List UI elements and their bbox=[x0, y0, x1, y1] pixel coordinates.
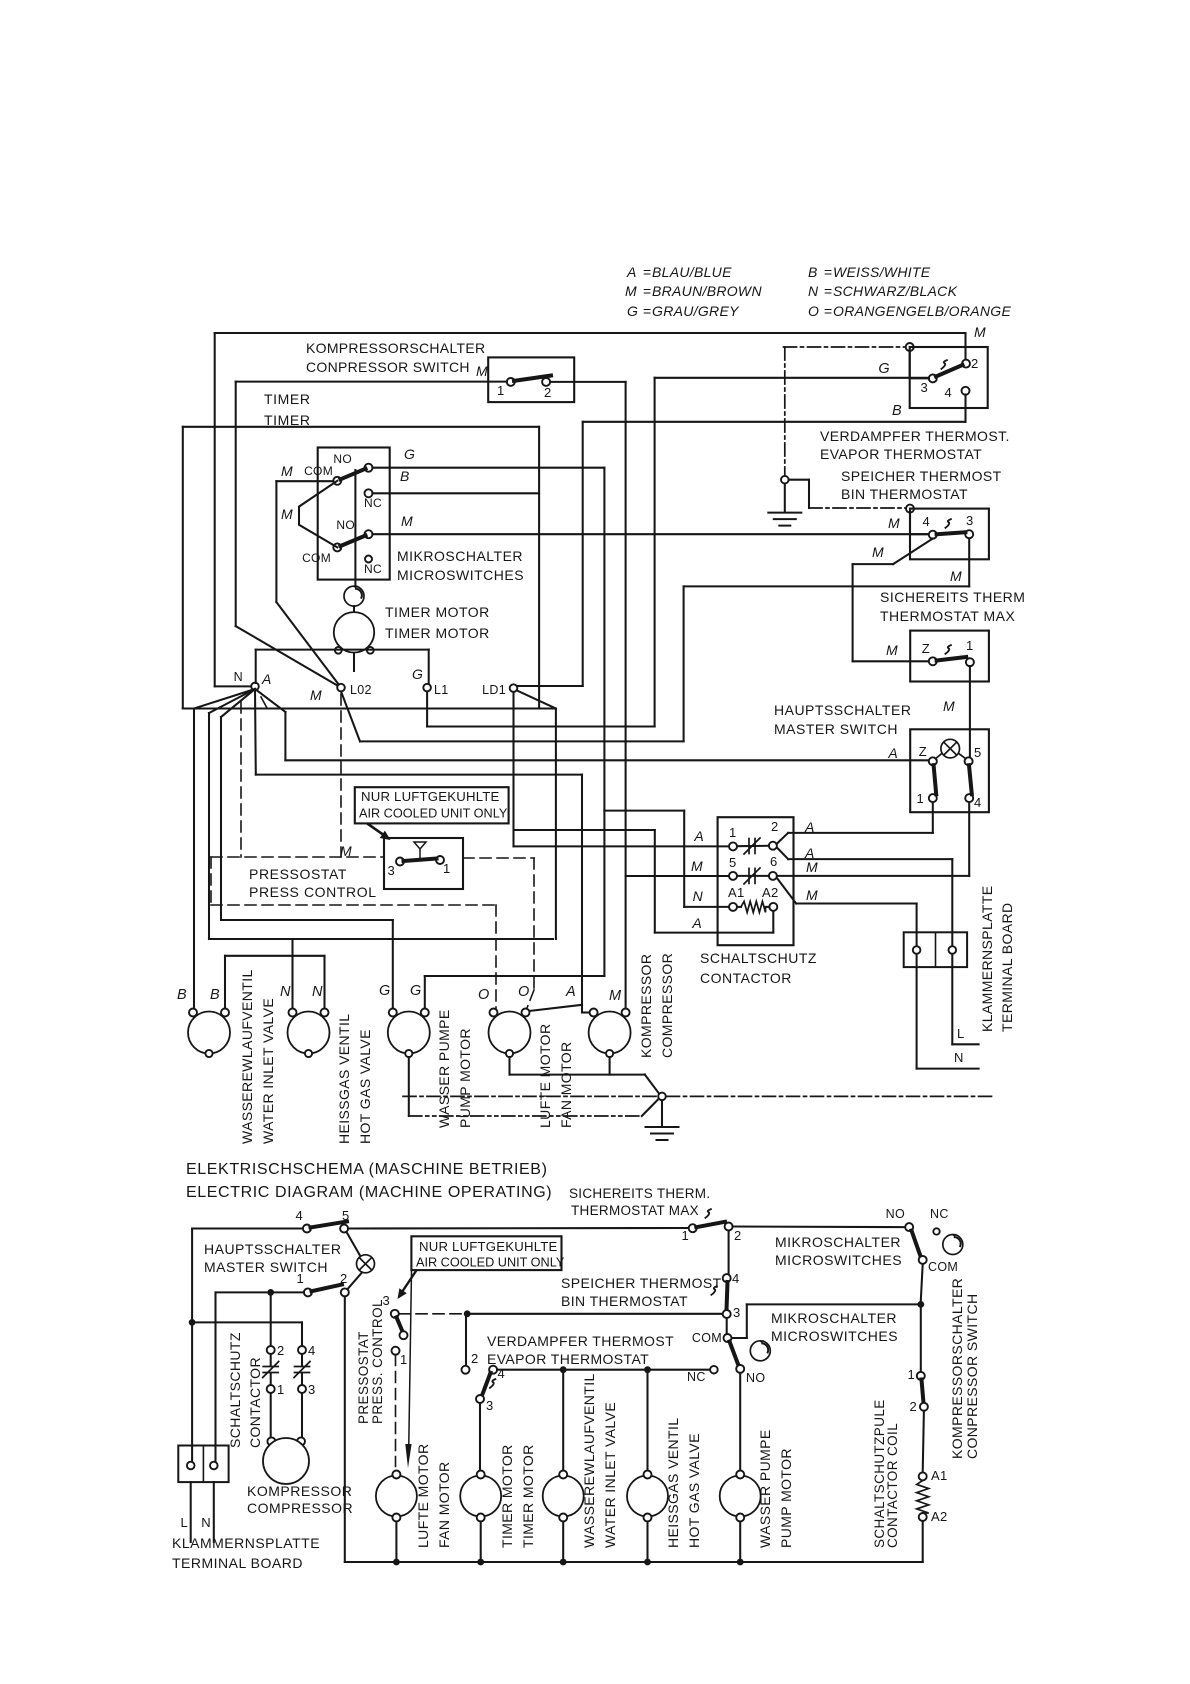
svg-text:HEISSGAS VENTIL: HEISSGAS VENTIL bbox=[336, 1014, 352, 1144]
svg-text:1: 1 bbox=[916, 791, 924, 806]
svg-text:=: = bbox=[824, 264, 832, 280]
svg-text:M: M bbox=[943, 698, 955, 714]
svg-text:NUR LUFTGEKUHLTE: NUR LUFTGEKUHLTE bbox=[419, 1239, 558, 1254]
svg-text:M: M bbox=[281, 506, 293, 522]
svg-text:NUR LUFTGEKUHLTE: NUR LUFTGEKUHLTE bbox=[361, 789, 500, 804]
svg-text:G: G bbox=[878, 361, 890, 377]
svg-text:N: N bbox=[312, 984, 323, 1000]
svg-text:4: 4 bbox=[944, 385, 952, 400]
svg-text:NO: NO bbox=[333, 452, 352, 466]
svg-text:BIN THERMOSTAT: BIN THERMOSTAT bbox=[561, 1293, 688, 1309]
svg-text:N: N bbox=[808, 283, 819, 299]
svg-text:A: A bbox=[887, 745, 898, 761]
svg-text:TERMINAL BOARD: TERMINAL BOARD bbox=[172, 1555, 303, 1571]
svg-text:ORANGENGELB/ORANGE: ORANGENGELB/ORANGE bbox=[833, 303, 1011, 319]
svg-text:M: M bbox=[401, 513, 413, 529]
svg-text:HEISSGAS VENTIL: HEISSGAS VENTIL bbox=[665, 1418, 681, 1548]
svg-text:L: L bbox=[180, 1515, 188, 1530]
svg-text:PRESSOSTAT: PRESSOSTAT bbox=[249, 866, 347, 882]
svg-text:M: M bbox=[872, 544, 884, 560]
svg-text:4: 4 bbox=[498, 1366, 506, 1381]
svg-text:L: L bbox=[957, 1026, 965, 1041]
svg-text:=: = bbox=[824, 283, 832, 299]
svg-text:TIMER MOTOR: TIMER MOTOR bbox=[385, 604, 490, 620]
svg-text:6: 6 bbox=[770, 854, 778, 869]
svg-text:LUFTE MOTOR: LUFTE MOTOR bbox=[415, 1444, 431, 1548]
svg-text:N: N bbox=[693, 888, 704, 904]
svg-text:3: 3 bbox=[308, 1382, 316, 1397]
svg-text:WASSER PUMPE: WASSER PUMPE bbox=[436, 1009, 452, 1128]
svg-text:5: 5 bbox=[342, 1208, 350, 1223]
svg-text:M: M bbox=[806, 887, 818, 903]
svg-text:PRESS CONTROL: PRESS CONTROL bbox=[249, 884, 377, 900]
svg-text:SICHEREITS THERM.: SICHEREITS THERM. bbox=[569, 1186, 710, 1201]
svg-text:MICROSWITCHES: MICROSWITCHES bbox=[771, 1328, 898, 1344]
svg-text:A: A bbox=[261, 671, 272, 687]
svg-text:SPEICHER THERMOST: SPEICHER THERMOST bbox=[841, 468, 1002, 484]
svg-text:HOT GAS VALVE: HOT GAS VALVE bbox=[686, 1433, 702, 1548]
svg-text:BIN THERMOSTAT: BIN THERMOSTAT bbox=[841, 486, 968, 502]
svg-text:NC: NC bbox=[364, 496, 382, 510]
svg-text:1: 1 bbox=[729, 825, 737, 840]
svg-text:1: 1 bbox=[400, 1352, 408, 1367]
svg-text:M: M bbox=[974, 324, 986, 340]
svg-text:ELEKTRISCHSCHEMA (MASCHINE BET: ELEKTRISCHSCHEMA (MASCHINE BETRIEB) bbox=[186, 1161, 548, 1178]
svg-text:4: 4 bbox=[974, 795, 982, 810]
svg-text:A: A bbox=[693, 828, 704, 844]
svg-text:G: G bbox=[412, 666, 423, 682]
svg-text:SICHEREITS THERM: SICHEREITS THERM bbox=[880, 589, 1025, 605]
svg-text:G: G bbox=[379, 983, 391, 999]
svg-text:A2: A2 bbox=[762, 885, 779, 900]
svg-text:2: 2 bbox=[734, 1228, 742, 1243]
svg-text:TIMER MOTOR: TIMER MOTOR bbox=[385, 625, 490, 641]
svg-text:CONTACTOR: CONTACTOR bbox=[247, 1357, 263, 1448]
svg-text:KLAMMERNSPLATTE: KLAMMERNSPLATTE bbox=[172, 1535, 320, 1551]
svg-text:WATER INLET VALVE: WATER INLET VALVE bbox=[260, 998, 276, 1144]
svg-text:M: M bbox=[476, 363, 488, 379]
svg-text:KOMPRESSORSCHALTER: KOMPRESSORSCHALTER bbox=[949, 1278, 965, 1459]
svg-text:EVAPOR THERMOSTAT: EVAPOR THERMOSTAT bbox=[487, 1351, 649, 1367]
svg-text:M: M bbox=[691, 858, 703, 874]
svg-text:COMPRESSOR: COMPRESSOR bbox=[659, 953, 675, 1058]
svg-text:N: N bbox=[234, 670, 243, 684]
svg-text:AIR COOLED UNIT ONLY: AIR COOLED UNIT ONLY bbox=[416, 1256, 565, 1270]
svg-text:AIR COOLED UNIT ONLY: AIR COOLED UNIT ONLY bbox=[359, 807, 508, 821]
svg-text:M: M bbox=[310, 687, 322, 703]
svg-text:MASTER SWITCH: MASTER SWITCH bbox=[774, 721, 898, 737]
svg-text:A: A bbox=[691, 915, 702, 931]
svg-text:CONPRESSOR SWITCH: CONPRESSOR SWITCH bbox=[306, 359, 470, 375]
svg-text:ELECTRIC DIAGRAM (MACHINE OPER: ELECTRIC DIAGRAM (MACHINE OPERATING) bbox=[186, 1184, 552, 1201]
svg-text:FAN MOTOR: FAN MOTOR bbox=[558, 1041, 574, 1128]
svg-text:1: 1 bbox=[443, 861, 451, 876]
svg-text:O: O bbox=[478, 987, 490, 1003]
svg-text:SCHWARZ/BLACK: SCHWARZ/BLACK bbox=[833, 283, 958, 299]
svg-text:TIMER: TIMER bbox=[264, 391, 311, 407]
svg-text:COM: COM bbox=[302, 551, 331, 565]
svg-text:=: = bbox=[643, 264, 651, 280]
svg-text:B: B bbox=[892, 403, 902, 419]
svg-text:A1: A1 bbox=[931, 1468, 948, 1483]
svg-text:COM: COM bbox=[304, 464, 333, 478]
svg-text:VERDAMPFER THERMOST.: VERDAMPFER THERMOST. bbox=[820, 428, 1010, 444]
svg-text:SCHALTSCHUTZ: SCHALTSCHUTZ bbox=[700, 950, 817, 966]
svg-text:HAUPTSSCHALTER: HAUPTSSCHALTER bbox=[204, 1241, 341, 1257]
svg-text:M: M bbox=[609, 988, 622, 1004]
svg-text:3: 3 bbox=[486, 1398, 494, 1413]
svg-text:PUMP MOTOR: PUMP MOTOR bbox=[778, 1448, 794, 1548]
svg-text:HOT GAS VALVE: HOT GAS VALVE bbox=[357, 1029, 373, 1144]
svg-text:3: 3 bbox=[733, 1305, 741, 1320]
svg-text:NC: NC bbox=[930, 1207, 949, 1221]
svg-text:4: 4 bbox=[308, 1343, 316, 1358]
svg-text:L1: L1 bbox=[434, 683, 449, 697]
svg-text:2: 2 bbox=[340, 1271, 348, 1286]
svg-text:NO: NO bbox=[886, 1207, 905, 1221]
svg-text:KLAMMERNSPLATTE: KLAMMERNSPLATTE bbox=[979, 885, 995, 1032]
svg-text:=: = bbox=[643, 303, 651, 319]
svg-text:=: = bbox=[643, 283, 651, 299]
svg-text:SPEICHER THERMOST: SPEICHER THERMOST bbox=[561, 1275, 722, 1291]
svg-text:M: M bbox=[886, 642, 898, 658]
svg-text:Z: Z bbox=[922, 641, 930, 656]
svg-text:1: 1 bbox=[907, 1367, 915, 1382]
svg-text:3: 3 bbox=[920, 380, 928, 395]
svg-text:PRESS. CONTROL: PRESS. CONTROL bbox=[370, 1299, 385, 1424]
svg-text:TIMER MOTOR: TIMER MOTOR bbox=[499, 1444, 515, 1548]
svg-text:GRAU/GREY: GRAU/GREY bbox=[652, 303, 740, 319]
svg-text:CONTACTOR: CONTACTOR bbox=[700, 970, 792, 986]
svg-text:WASSEREWLAUFVENTIL: WASSEREWLAUFVENTIL bbox=[581, 1373, 597, 1548]
svg-text:4: 4 bbox=[922, 514, 930, 529]
svg-text:N: N bbox=[201, 1515, 211, 1530]
svg-text:G: G bbox=[410, 983, 422, 999]
svg-text:3: 3 bbox=[387, 863, 395, 878]
svg-text:A: A bbox=[565, 984, 576, 1000]
svg-text:B: B bbox=[400, 468, 410, 484]
svg-text:BRAUN/BROWN: BRAUN/BROWN bbox=[652, 283, 762, 299]
svg-text:M: M bbox=[806, 859, 818, 875]
svg-text:NO: NO bbox=[336, 518, 355, 532]
svg-text:M: M bbox=[281, 463, 293, 479]
svg-text:1: 1 bbox=[296, 1271, 304, 1286]
svg-text:G: G bbox=[627, 303, 638, 319]
svg-text:5: 5 bbox=[729, 855, 737, 870]
svg-text:THERMOSTAT MAX: THERMOSTAT MAX bbox=[571, 1203, 699, 1218]
svg-text:COM: COM bbox=[692, 1331, 722, 1345]
svg-text:4: 4 bbox=[295, 1208, 303, 1223]
svg-text:COMPRESSOR: COMPRESSOR bbox=[247, 1500, 353, 1516]
svg-text:COM: COM bbox=[928, 1260, 958, 1274]
svg-text:KOMPRESSOR: KOMPRESSOR bbox=[247, 1483, 352, 1499]
svg-text:2: 2 bbox=[971, 356, 979, 371]
svg-text:O: O bbox=[808, 303, 819, 319]
svg-text:KOMPRESSORSCHALTER: KOMPRESSORSCHALTER bbox=[306, 340, 485, 356]
svg-text:MICROSWITCHES: MICROSWITCHES bbox=[775, 1252, 902, 1268]
svg-text:NO: NO bbox=[746, 1371, 765, 1385]
svg-text:FAN MOTOR: FAN MOTOR bbox=[436, 1461, 452, 1548]
svg-text:5: 5 bbox=[974, 745, 982, 760]
svg-text:EVAPOR THERMOSTAT: EVAPOR THERMOSTAT bbox=[820, 446, 982, 462]
svg-text:WEISS/WHITE: WEISS/WHITE bbox=[833, 264, 931, 280]
svg-text:2: 2 bbox=[909, 1399, 917, 1414]
svg-text:LD1: LD1 bbox=[482, 683, 506, 697]
svg-text:2: 2 bbox=[771, 819, 779, 834]
svg-text:VERDAMPFER THERMOST: VERDAMPFER THERMOST bbox=[487, 1333, 674, 1349]
svg-text:HAUPTSSCHALTER: HAUPTSSCHALTER bbox=[774, 702, 911, 718]
svg-text:M: M bbox=[888, 515, 900, 531]
svg-text:CONPRESSOR SWITCH: CONPRESSOR SWITCH bbox=[964, 1294, 980, 1459]
svg-text:A2: A2 bbox=[931, 1509, 948, 1524]
svg-text:MIKROSCHALTER: MIKROSCHALTER bbox=[775, 1234, 901, 1250]
svg-text:NC: NC bbox=[364, 562, 382, 576]
svg-text:=: = bbox=[824, 303, 832, 319]
svg-text:WASSER PUMPE: WASSER PUMPE bbox=[757, 1429, 773, 1548]
svg-text:NC: NC bbox=[687, 1370, 706, 1384]
svg-text:B: B bbox=[210, 987, 220, 1003]
svg-text:MIKROSCHALTER: MIKROSCHALTER bbox=[771, 1310, 897, 1326]
svg-text:B: B bbox=[177, 987, 187, 1003]
svg-text:2: 2 bbox=[544, 385, 552, 400]
svg-text:M: M bbox=[950, 568, 962, 584]
svg-text:BLAU/BLUE: BLAU/BLUE bbox=[652, 264, 732, 280]
svg-text:N: N bbox=[954, 1050, 964, 1065]
svg-text:WATER INLET VALVE: WATER INLET VALVE bbox=[602, 1402, 618, 1548]
svg-text:TIMER MOTOR: TIMER MOTOR bbox=[520, 1444, 536, 1548]
svg-text:A1: A1 bbox=[728, 885, 745, 900]
svg-text:L02: L02 bbox=[350, 683, 372, 697]
svg-text:G: G bbox=[404, 446, 415, 462]
svg-text:M: M bbox=[625, 283, 637, 299]
svg-text:PRESSOSTAT: PRESSOSTAT bbox=[356, 1331, 371, 1424]
svg-text:N: N bbox=[280, 984, 291, 1000]
svg-text:CONTACTOR COIL: CONTACTOR COIL bbox=[885, 1423, 900, 1548]
svg-text:TERMINAL BOARD: TERMINAL BOARD bbox=[999, 902, 1015, 1032]
svg-text:2: 2 bbox=[277, 1343, 285, 1358]
svg-text:3: 3 bbox=[966, 513, 974, 528]
svg-text:KOMPRESSOR: KOMPRESSOR bbox=[638, 954, 654, 1058]
svg-text:PUMP MOTOR: PUMP MOTOR bbox=[457, 1028, 473, 1128]
svg-text:A: A bbox=[626, 264, 637, 280]
svg-text:2: 2 bbox=[471, 1351, 479, 1366]
svg-text:1: 1 bbox=[966, 638, 974, 653]
svg-text:1: 1 bbox=[497, 383, 505, 398]
svg-text:Z: Z bbox=[919, 744, 927, 759]
svg-text:1: 1 bbox=[681, 1228, 689, 1243]
svg-text:1: 1 bbox=[277, 1382, 285, 1397]
svg-text:O: O bbox=[518, 984, 530, 1000]
svg-text:TIMER: TIMER bbox=[264, 412, 311, 428]
svg-text:B: B bbox=[808, 264, 818, 280]
svg-text:WASSEREWLAUFVENTIL: WASSEREWLAUFVENTIL bbox=[239, 969, 255, 1144]
svg-text:4: 4 bbox=[732, 1271, 740, 1286]
svg-text:THERMOSTAT MAX: THERMOSTAT MAX bbox=[880, 608, 1016, 624]
svg-text:MASTER SWITCH: MASTER SWITCH bbox=[204, 1259, 328, 1275]
svg-text:SCHALTSCHUTZ: SCHALTSCHUTZ bbox=[227, 1332, 243, 1448]
svg-text:LUFTE MOTOR: LUFTE MOTOR bbox=[537, 1024, 553, 1128]
svg-text:MIKROSCHALTER: MIKROSCHALTER bbox=[397, 548, 523, 564]
svg-text:M: M bbox=[340, 843, 352, 859]
svg-text:MICROSWITCHES: MICROSWITCHES bbox=[397, 567, 524, 583]
